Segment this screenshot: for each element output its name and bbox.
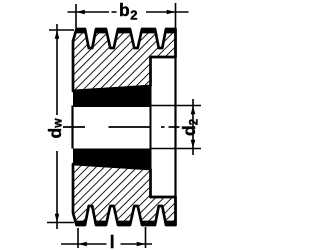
pulley lower rim+web section hatched [73,164,176,225]
taper bush lower black section [73,149,151,170]
svg-text:l: l [110,232,115,250]
rim right edge line [174,29,176,225]
dimension b2 top [68,3,189,28]
pulley upper rim+web section hatched [73,29,176,91]
bottom teeth black caps [76,221,176,226]
top teeth black caps [76,28,176,33]
taper bush upper black section [73,86,151,107]
centerline axis [63,126,180,128]
dimension l bottom [61,227,152,248]
bush left face edge across bore [71,106,73,149]
dimension d_w left [47,24,74,229]
dimension d2 right [152,99,202,155]
hub right face line [150,57,152,197]
